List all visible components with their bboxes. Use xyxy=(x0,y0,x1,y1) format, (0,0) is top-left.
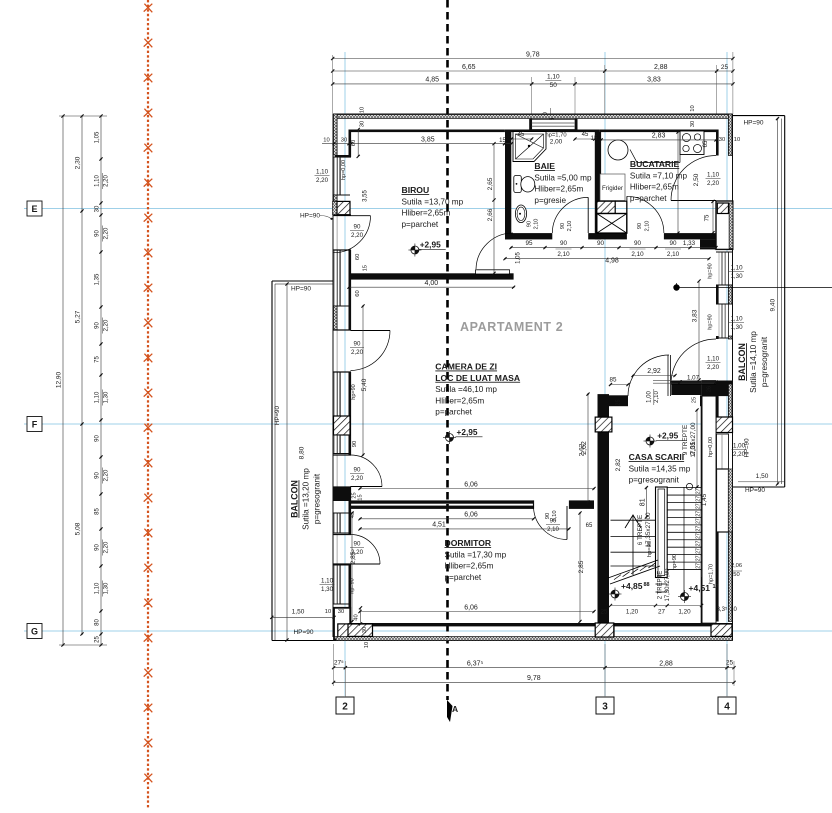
svg-text:1,50: 1,50 xyxy=(756,473,769,480)
svg-text:2,88: 2,88 xyxy=(654,64,668,71)
svg-text:10: 10 xyxy=(690,105,696,111)
svg-text:4: 4 xyxy=(724,702,730,713)
svg-text:E: E xyxy=(31,204,37,214)
svg-text:15: 15 xyxy=(591,136,598,142)
svg-text:27: 27 xyxy=(696,526,702,532)
svg-text:2,20: 2,20 xyxy=(707,364,720,371)
svg-text:APARTAMENT 2: APARTAMENT 2 xyxy=(460,320,563,334)
svg-text:30: 30 xyxy=(341,138,347,144)
svg-text:2,50: 2,50 xyxy=(693,173,700,186)
svg-text:27: 27 xyxy=(696,511,702,517)
svg-text:65: 65 xyxy=(586,523,593,529)
svg-text:6,06: 6,06 xyxy=(464,512,478,519)
svg-text:27⁵: 27⁵ xyxy=(334,660,344,667)
svg-text:1,30: 1,30 xyxy=(104,391,110,403)
svg-text:1,05: 1,05 xyxy=(95,131,101,143)
svg-text:10: 10 xyxy=(325,609,331,615)
svg-text:2,20: 2,20 xyxy=(104,469,110,481)
svg-text:4,00: 4,00 xyxy=(424,280,438,287)
svg-text:75: 75 xyxy=(705,214,711,221)
svg-text:1,10: 1,10 xyxy=(321,578,334,585)
svg-text:LOC DE LUAT MASA: LOC DE LUAT MASA xyxy=(435,373,520,383)
svg-text:BIROU: BIROU xyxy=(402,185,430,195)
svg-text:90: 90 xyxy=(352,441,358,447)
svg-text:hp=90: hp=90 xyxy=(708,263,714,278)
svg-text:BALCON: BALCON xyxy=(737,343,747,381)
svg-text:1,10: 1,10 xyxy=(316,169,329,176)
svg-text:1,33: 1,33 xyxy=(683,240,696,247)
svg-text:HP=90: HP=90 xyxy=(743,119,763,126)
svg-text:30: 30 xyxy=(95,205,101,212)
svg-text:Hliber=2,65m: Hliber=2,65m xyxy=(630,183,679,192)
svg-text:10: 10 xyxy=(734,137,740,143)
svg-text:3,83: 3,83 xyxy=(647,77,661,84)
svg-text:2,01: 2,01 xyxy=(690,442,697,456)
svg-text:HP=90: HP=90 xyxy=(274,405,281,425)
svg-text:60: 60 xyxy=(355,254,361,260)
svg-text:2,10: 2,10 xyxy=(654,391,660,403)
svg-text:17: 17 xyxy=(713,584,719,590)
svg-text:1,10: 1,10 xyxy=(95,175,101,187)
svg-text:90: 90 xyxy=(95,435,101,442)
svg-text:6,06: 6,06 xyxy=(464,604,478,611)
svg-text:hp=1,70: hp=1,70 xyxy=(709,564,715,584)
svg-text:2,10: 2,10 xyxy=(631,251,644,258)
svg-text:hp=0,00: hp=0,00 xyxy=(708,437,714,457)
svg-text:27: 27 xyxy=(696,488,702,494)
svg-text:3,85: 3,85 xyxy=(421,137,435,144)
svg-text:88: 88 xyxy=(644,582,650,588)
svg-text:10: 10 xyxy=(364,642,370,648)
svg-text:2,00: 2,00 xyxy=(550,139,563,146)
svg-text:DORMITOR: DORMITOR xyxy=(445,538,492,548)
svg-text:2,10: 2,10 xyxy=(557,251,570,258)
svg-text:1,10: 1,10 xyxy=(95,391,101,403)
svg-text:A: A xyxy=(452,704,458,714)
svg-text:25: 25 xyxy=(721,64,729,71)
svg-text:2,20: 2,20 xyxy=(316,177,329,184)
svg-text:2,62: 2,62 xyxy=(579,443,586,456)
svg-text:2,20: 2,20 xyxy=(351,475,364,482)
svg-text:17,30x27,00: 17,30x27,00 xyxy=(665,568,671,602)
svg-text:15: 15 xyxy=(499,138,506,144)
svg-text:2,10: 2,10 xyxy=(567,221,573,232)
svg-text:Hliber=2,65m: Hliber=2,65m xyxy=(445,562,494,571)
svg-text:Sutila =13,20 mp: Sutila =13,20 mp xyxy=(302,468,311,530)
svg-text:27: 27 xyxy=(696,548,702,554)
svg-text:50: 50 xyxy=(733,572,739,578)
svg-text:2,20: 2,20 xyxy=(104,175,110,187)
svg-text:1,10: 1,10 xyxy=(95,582,101,594)
svg-text:6,06: 6,06 xyxy=(464,481,478,488)
svg-text:p=parchet: p=parchet xyxy=(630,194,667,203)
svg-text:2,82: 2,82 xyxy=(615,458,622,471)
svg-text:90: 90 xyxy=(354,467,361,474)
svg-text:hp=90: hp=90 xyxy=(350,578,356,593)
svg-text:8,80: 8,80 xyxy=(299,446,306,459)
svg-text:2,10: 2,10 xyxy=(547,527,559,533)
svg-text:85: 85 xyxy=(95,508,101,515)
svg-text:27: 27 xyxy=(696,533,702,539)
svg-text:1,35: 1,35 xyxy=(95,273,101,285)
svg-text:95: 95 xyxy=(525,240,533,247)
svg-text:p=gresogranit: p=gresogranit xyxy=(313,473,322,524)
svg-text:1,20: 1,20 xyxy=(678,609,691,616)
svg-text:+2,95: +2,95 xyxy=(657,431,678,441)
svg-text:3,83: 3,83 xyxy=(692,309,699,322)
svg-text:6,65: 6,65 xyxy=(462,64,476,71)
svg-text:25: 25 xyxy=(600,609,608,616)
svg-text:6 TREPTE: 6 TREPTE xyxy=(637,515,644,545)
svg-text:hp=90: hp=90 xyxy=(708,314,714,329)
svg-text:90: 90 xyxy=(560,240,568,247)
svg-text:90: 90 xyxy=(354,541,361,548)
svg-text:Hliber=2,65m: Hliber=2,65m xyxy=(435,396,484,405)
svg-text:2,20: 2,20 xyxy=(104,541,110,553)
svg-text:90: 90 xyxy=(95,230,101,237)
svg-text:9,40: 9,40 xyxy=(770,298,777,311)
svg-text:25: 25 xyxy=(616,399,622,405)
svg-text:2,20: 2,20 xyxy=(104,227,110,239)
svg-text:2,20: 2,20 xyxy=(707,180,720,187)
svg-text:1,10: 1,10 xyxy=(547,74,560,81)
svg-text:6,37⁵: 6,37⁵ xyxy=(467,661,484,668)
svg-text:CAMERA DE ZI: CAMERA DE ZI xyxy=(435,362,497,372)
svg-text:3,55: 3,55 xyxy=(363,190,369,202)
svg-text:2,20: 2,20 xyxy=(104,319,110,331)
svg-text:90: 90 xyxy=(95,322,101,329)
svg-text:75: 75 xyxy=(95,356,101,363)
svg-text:2,66: 2,66 xyxy=(487,208,494,221)
svg-text:4,85: 4,85 xyxy=(425,77,439,84)
svg-text:+2,95: +2,95 xyxy=(420,240,441,250)
svg-text:30: 30 xyxy=(362,627,368,633)
svg-text:hp=90: hp=90 xyxy=(672,554,678,570)
svg-text:2,92: 2,92 xyxy=(647,368,661,375)
svg-text:2,83: 2,83 xyxy=(652,133,666,140)
svg-text:1,50: 1,50 xyxy=(292,609,305,616)
svg-text:60: 60 xyxy=(351,140,357,146)
svg-text:45: 45 xyxy=(582,132,589,138)
svg-text:25: 25 xyxy=(692,397,698,403)
svg-text:10: 10 xyxy=(360,107,366,113)
svg-text:30: 30 xyxy=(719,137,725,143)
svg-text:+2,95: +2,95 xyxy=(457,427,478,437)
svg-text:40: 40 xyxy=(354,614,360,620)
svg-text:2,88: 2,88 xyxy=(659,661,673,668)
svg-text:2,06: 2,06 xyxy=(731,563,742,569)
svg-text:90: 90 xyxy=(669,240,677,247)
svg-text:1,20: 1,20 xyxy=(626,609,639,616)
svg-text:26: 26 xyxy=(707,386,713,392)
svg-text:p=parchet: p=parchet xyxy=(445,573,482,582)
svg-text:HP=90: HP=90 xyxy=(745,487,765,494)
svg-text:3: 3 xyxy=(602,702,608,713)
svg-text:1,10: 1,10 xyxy=(730,265,743,272)
svg-text:90: 90 xyxy=(634,240,642,247)
svg-text:30: 30 xyxy=(690,121,696,127)
svg-text:2,30: 2,30 xyxy=(75,156,82,169)
svg-text:BAIE: BAIE xyxy=(534,161,555,171)
svg-text:27: 27 xyxy=(696,518,702,524)
svg-text:Hliber=2,65m: Hliber=2,65m xyxy=(402,209,451,218)
svg-text:90: 90 xyxy=(560,223,566,229)
svg-text:1,30: 1,30 xyxy=(730,273,743,280)
svg-text:90: 90 xyxy=(527,221,533,227)
svg-text:5,27: 5,27 xyxy=(75,310,82,323)
svg-text:p=gresogranit: p=gresogranit xyxy=(629,476,680,485)
svg-text:Sutila =13,70 mp: Sutila =13,70 mp xyxy=(402,197,464,206)
svg-text:+4,51: +4,51 xyxy=(689,583,711,593)
svg-text:2,65: 2,65 xyxy=(487,177,494,190)
svg-text:9,78: 9,78 xyxy=(526,51,540,58)
svg-text:1,00: 1,00 xyxy=(733,443,746,450)
svg-text:45: 45 xyxy=(518,132,525,138)
svg-text:15: 15 xyxy=(363,265,369,271)
svg-text:60: 60 xyxy=(355,290,361,296)
svg-text:27: 27 xyxy=(696,563,702,569)
svg-text:50: 50 xyxy=(550,82,558,89)
svg-text:p=gresie: p=gresie xyxy=(534,196,566,205)
svg-text:4,51: 4,51 xyxy=(432,522,446,529)
svg-text:2,10: 2,10 xyxy=(667,251,680,258)
svg-text:10: 10 xyxy=(730,607,737,613)
svg-text:65: 65 xyxy=(703,140,709,147)
svg-text:HP=90: HP=90 xyxy=(300,213,320,220)
svg-text:2 TREPTE: 2 TREPTE xyxy=(658,571,664,600)
svg-text:2,20: 2,20 xyxy=(733,451,746,458)
svg-text:30: 30 xyxy=(360,121,366,127)
svg-text:HP=90: HP=90 xyxy=(291,286,311,293)
svg-text:10: 10 xyxy=(323,138,329,144)
svg-text:p=parchet: p=parchet xyxy=(435,408,472,417)
svg-text:G: G xyxy=(31,627,38,637)
svg-text:2,85: 2,85 xyxy=(578,560,585,573)
svg-text:27: 27 xyxy=(658,609,666,616)
svg-text:2,10: 2,10 xyxy=(534,219,540,230)
svg-text:2: 2 xyxy=(342,702,348,713)
svg-text:1,05: 1,05 xyxy=(516,252,522,264)
svg-text:hp=90: hp=90 xyxy=(647,541,653,557)
svg-text:81: 81 xyxy=(639,498,646,506)
svg-text:90: 90 xyxy=(95,544,101,551)
svg-text:Frigider: Frigider xyxy=(602,185,623,192)
svg-text:+4,85: +4,85 xyxy=(621,581,643,591)
svg-text:85: 85 xyxy=(609,377,617,384)
svg-text:1,10: 1,10 xyxy=(730,316,743,323)
svg-text:2,20: 2,20 xyxy=(351,232,364,239)
svg-text:2,10: 2,10 xyxy=(645,221,651,232)
svg-text:3,3⁵: 3,3⁵ xyxy=(717,606,728,613)
svg-text:hp=90: hp=90 xyxy=(351,384,357,399)
svg-text:1,45: 1,45 xyxy=(701,493,708,506)
svg-text:1,30: 1,30 xyxy=(321,586,334,593)
svg-text:12,90: 12,90 xyxy=(56,371,63,388)
svg-text:5,40: 5,40 xyxy=(361,378,368,391)
svg-text:90: 90 xyxy=(637,223,643,229)
svg-text:1,30: 1,30 xyxy=(730,324,743,331)
svg-text:BALCON: BALCON xyxy=(290,480,300,518)
svg-text:90: 90 xyxy=(354,341,361,348)
svg-text:15: 15 xyxy=(358,494,364,500)
svg-text:80: 80 xyxy=(95,619,101,626)
svg-text:4,98: 4,98 xyxy=(605,258,619,265)
svg-text:1,10: 1,10 xyxy=(707,172,720,179)
svg-text:Sutila =14,35 mp: Sutila =14,35 mp xyxy=(629,464,691,473)
svg-text:F: F xyxy=(32,420,38,430)
svg-text:Sutila =5,00 mp: Sutila =5,00 mp xyxy=(534,173,592,182)
svg-text:30: 30 xyxy=(338,609,344,615)
svg-text:Sutila =14,10 mp: Sutila =14,10 mp xyxy=(749,331,758,393)
svg-text:27: 27 xyxy=(696,555,702,561)
svg-text:90: 90 xyxy=(597,240,605,247)
svg-text:5,08: 5,08 xyxy=(75,522,82,535)
svg-text:hp=0,00: hp=0,00 xyxy=(341,160,347,180)
svg-text:Sutila =46,10 mp: Sutila =46,10 mp xyxy=(435,385,497,394)
svg-text:2,20: 2,20 xyxy=(351,349,364,356)
svg-text:90: 90 xyxy=(354,224,361,231)
svg-text:25: 25 xyxy=(95,636,101,643)
svg-text:p=gresogranit: p=gresogranit xyxy=(760,336,769,387)
svg-text:BUCATARIE: BUCATARIE xyxy=(630,159,680,169)
svg-text:90: 90 xyxy=(95,472,101,479)
svg-text:p=parchet: p=parchet xyxy=(402,220,439,229)
svg-text:CASA SCARII: CASA SCARII xyxy=(629,452,685,462)
svg-text:1,10: 1,10 xyxy=(707,356,720,363)
svg-text:HP=90: HP=90 xyxy=(293,629,313,636)
svg-text:1,00: 1,00 xyxy=(647,391,653,403)
svg-text:90: 90 xyxy=(550,519,557,525)
svg-text:27: 27 xyxy=(696,541,702,547)
svg-text:1,30: 1,30 xyxy=(104,582,110,594)
svg-text:2,85: 2,85 xyxy=(350,551,357,564)
svg-text:Sutila =17,30 mp: Sutila =17,30 mp xyxy=(445,550,507,559)
svg-text:9,78: 9,78 xyxy=(527,675,541,682)
svg-text:Sutila =7,10 mp: Sutila =7,10 mp xyxy=(630,171,688,180)
svg-text:Hliber=2,65m: Hliber=2,65m xyxy=(534,185,583,194)
